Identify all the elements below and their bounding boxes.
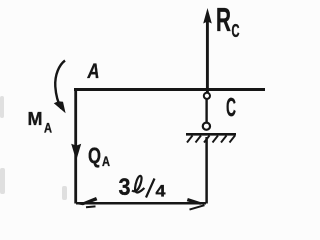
svg-text:A: A (44, 120, 52, 136)
label M_A (28, 109, 53, 136)
label R_C (216, 1, 240, 41)
dimension arrowhead right (187, 198, 206, 205)
beam AC horizontal line (74, 88, 265, 91)
dimension arrowhead left (78, 197, 98, 205)
svg-text:Q: Q (88, 143, 101, 168)
ground line (186, 133, 236, 136)
moment arrowhead (54, 101, 66, 113)
svg-text:A: A (102, 153, 110, 169)
label 3l/4 (119, 174, 167, 201)
ground hatching (187, 136, 235, 143)
svg-text:3: 3 (119, 174, 131, 201)
slash (146, 179, 155, 198)
svg-text:R: R (216, 1, 231, 38)
moment arc M_A (55, 61, 65, 109)
wire left vertical extension from A down (74, 88, 77, 204)
support link bar (205, 99, 207, 124)
svg-text:C: C (226, 92, 236, 122)
pin circle at C (on beam) (204, 93, 210, 99)
faint scan smudges (0, 96, 67, 200)
svg-text:4: 4 (156, 182, 167, 201)
wire right vertical extension below support (205, 137, 208, 204)
script ell (132, 176, 144, 193)
lower pin circle (203, 123, 210, 130)
reaction arrow R_C shaft (206, 20, 209, 93)
label Q_A (88, 143, 110, 169)
svg-text:C: C (232, 21, 240, 41)
svg-text:A: A (87, 60, 100, 83)
reaction arrowhead up (203, 8, 212, 24)
svg-text:M: M (28, 109, 43, 129)
force arrow Q_A (down arrowhead on left vertical) (71, 144, 81, 161)
dimension line 3l/4 (76, 202, 206, 205)
